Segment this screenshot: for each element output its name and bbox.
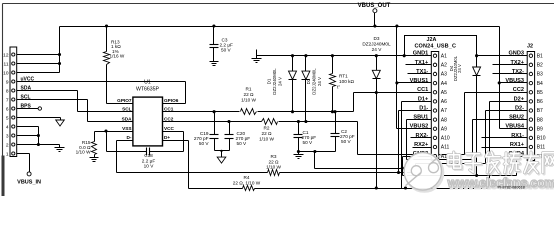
- svg-text:22 Ω: 22 Ω: [261, 131, 272, 136]
- svg-text:TX2-: TX2-: [512, 69, 524, 75]
- svg-text:10: 10: [3, 70, 9, 76]
- svg-text:A3: A3: [441, 72, 447, 78]
- svg-text:24 V: 24 V: [372, 47, 383, 52]
- svg-text:1/16 W: 1/16 W: [110, 54, 125, 59]
- svg-text:B4: B4: [537, 81, 543, 87]
- svg-text:A5: A5: [441, 90, 447, 96]
- svg-text:D1: D1: [267, 78, 272, 84]
- svg-text:GND1: GND1: [413, 51, 429, 57]
- svg-text:VBUS_OUT: VBUS_OUT: [358, 3, 391, 9]
- svg-text:22 Ω, 1/10 W: 22 Ω, 1/10 W: [233, 181, 261, 186]
- svg-text:3: 3: [6, 133, 9, 139]
- svg-text:R4: R4: [244, 175, 250, 180]
- svg-text:A9: A9: [441, 126, 447, 132]
- svg-text:1/10 W: 1/10 W: [241, 98, 256, 103]
- svg-text:CC2: CC2: [164, 116, 174, 121]
- svg-text:B10: B10: [537, 136, 546, 142]
- svg-text:8: 8: [6, 88, 9, 94]
- svg-text:B2: B2: [537, 63, 543, 69]
- svg-text:1/10 W: 1/10 W: [259, 137, 274, 142]
- svg-text:4: 4: [6, 124, 9, 130]
- svg-text:B11: B11: [537, 145, 546, 151]
- svg-text:WT6635P: WT6635P: [136, 87, 160, 93]
- svg-text:6: 6: [6, 106, 9, 112]
- svg-text:A11: A11: [441, 145, 450, 151]
- svg-text:B7: B7: [537, 108, 543, 114]
- svg-text:CON24_USB_C: CON24_USB_C: [414, 44, 456, 50]
- svg-text:VBUS2: VBUS2: [410, 124, 429, 130]
- svg-text:CC1: CC1: [417, 87, 428, 93]
- svg-text:24 V: 24 V: [317, 77, 322, 86]
- svg-text:50 V: 50 V: [221, 47, 232, 52]
- svg-text:50 V: 50 V: [303, 140, 314, 145]
- svg-text:2: 2: [6, 142, 9, 148]
- svg-text:A6: A6: [441, 99, 447, 105]
- svg-text:VBUS1: VBUS1: [410, 78, 429, 84]
- svg-text:B9: B9: [537, 126, 543, 132]
- svg-text:R3: R3: [271, 154, 277, 159]
- svg-text:100 kΩ: 100 kΩ: [339, 79, 354, 84]
- svg-text:A8: A8: [441, 117, 447, 123]
- svg-text:DZ2J240M0L: DZ2J240M0L: [312, 68, 317, 95]
- svg-text:VBUS3: VBUS3: [505, 78, 524, 84]
- svg-text:TX1-: TX1-: [416, 69, 428, 75]
- svg-text:1/10 W: 1/10 W: [76, 150, 91, 155]
- svg-text:U1: U1: [144, 80, 151, 86]
- svg-text:1: 1: [6, 151, 9, 157]
- svg-text:D+: D+: [164, 135, 170, 140]
- svg-text:R2: R2: [264, 125, 270, 130]
- svg-text:CC2: CC2: [513, 87, 524, 93]
- svg-text:J2: J2: [527, 44, 533, 50]
- svg-text:PI-8782-080618: PI-8782-080618: [498, 185, 525, 189]
- svg-text:SDA: SDA: [122, 116, 133, 121]
- svg-text:B1: B1: [537, 53, 543, 59]
- svg-text:GPIO6: GPIO6: [164, 98, 179, 103]
- svg-text:B6: B6: [537, 99, 543, 105]
- svg-text:RT1: RT1: [339, 74, 348, 79]
- svg-text:50 V: 50 V: [341, 139, 352, 144]
- svg-text:24 V: 24 V: [457, 64, 462, 73]
- svg-text:A2: A2: [441, 63, 447, 69]
- svg-text:24 V: 24 V: [278, 77, 283, 86]
- svg-text:GND3: GND3: [508, 51, 524, 57]
- svg-text:A10: A10: [441, 136, 450, 142]
- svg-text:VCC: VCC: [164, 126, 175, 131]
- svg-text:D2: D2: [306, 78, 311, 84]
- svg-text:CC1: CC1: [164, 107, 174, 112]
- svg-text:C18: C18: [144, 153, 153, 158]
- svg-text:22 Ω: 22 Ω: [243, 92, 254, 97]
- svg-text:B8: B8: [537, 117, 543, 123]
- svg-text:50 V: 50 V: [199, 141, 210, 146]
- svg-text:t°: t°: [337, 84, 340, 89]
- svg-text:10 V: 10 V: [144, 164, 155, 169]
- svg-text:2.2 μF: 2.2 μF: [142, 158, 156, 163]
- svg-text:A4: A4: [441, 81, 447, 87]
- svg-text:1/10 W: 1/10 W: [266, 165, 281, 170]
- svg-text:VBUS4: VBUS4: [505, 124, 525, 130]
- svg-text:DZ2J240M0L: DZ2J240M0L: [362, 42, 391, 47]
- svg-text:B3: B3: [537, 72, 543, 78]
- svg-text:D3: D3: [374, 36, 380, 41]
- svg-text:DZ2J240M0L: DZ2J240M0L: [272, 68, 277, 95]
- svg-text:11: 11: [4, 61, 9, 67]
- svg-text:A1: A1: [441, 53, 447, 59]
- svg-text:D2-: D2-: [515, 105, 524, 111]
- svg-text:GPIO7: GPIO7: [117, 98, 132, 103]
- svg-text:9: 9: [6, 79, 9, 85]
- svg-text:VSS: VSS: [122, 126, 131, 131]
- svg-text:J2A: J2A: [427, 37, 437, 43]
- svg-text:22 Ω: 22 Ω: [268, 159, 279, 164]
- svg-text:B5: B5: [537, 90, 543, 96]
- svg-text:VBUS_IN: VBUS_IN: [17, 180, 41, 186]
- svg-text:7: 7: [6, 97, 9, 103]
- svg-text:50 V: 50 V: [237, 141, 248, 146]
- svg-text:A7: A7: [441, 108, 447, 114]
- svg-text:12: 12: [3, 52, 9, 58]
- svg-text:D2+: D2+: [514, 96, 525, 102]
- svg-text:SCL: SCL: [122, 107, 132, 112]
- svg-text:D-: D-: [127, 135, 132, 140]
- svg-text:R1: R1: [246, 87, 252, 92]
- svg-text:5: 5: [6, 115, 9, 121]
